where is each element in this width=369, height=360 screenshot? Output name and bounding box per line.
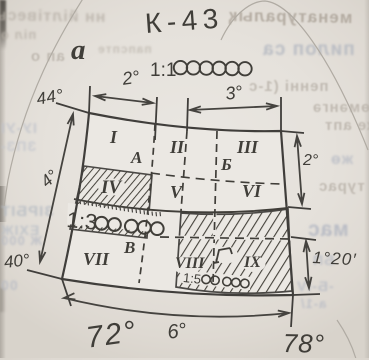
svg-text:1:3: 1:3	[66, 207, 99, 235]
svg-text:1:1: 1:1	[150, 60, 176, 81]
